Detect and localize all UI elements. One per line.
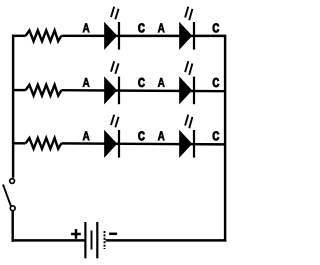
battery BT1 bbox=[71, 222, 117, 258]
label C cathode D4 bbox=[213, 78, 219, 87]
branch row 1 bbox=[12, 7, 225, 50]
label C cathode D1 bbox=[138, 23, 144, 32]
wire row3 left stub bbox=[12, 142, 26, 144]
LED D2 bbox=[180, 22, 194, 50]
wire row2 left stub bbox=[12, 89, 26, 91]
label A anode D2 bbox=[158, 23, 165, 32]
label C cathode D3 bbox=[138, 78, 144, 87]
LED D4 bbox=[180, 77, 194, 105]
label A anode D5 bbox=[83, 131, 90, 140]
battery plate positive long bbox=[84, 222, 86, 258]
wire right vertical bus bbox=[224, 35, 226, 242]
resistor R3 bbox=[26, 138, 62, 149]
LED D4 light arrows bbox=[185, 61, 192, 75]
LED D1 bbox=[105, 22, 119, 50]
label C cathode D5 bbox=[138, 131, 144, 140]
LED D3 light arrows bbox=[111, 61, 119, 74]
label C cathode D6 bbox=[213, 131, 219, 140]
branch row 2 bbox=[12, 61, 225, 104]
wire row1 main bbox=[61, 35, 225, 38]
label A anode D4 bbox=[158, 78, 165, 87]
label A anode D1 bbox=[83, 23, 90, 32]
wire below switch bbox=[11, 211, 13, 242]
battery plate long 2 bbox=[96, 222, 98, 258]
battery plate short 1 bbox=[91, 231, 93, 250]
LED D5 light arrows bbox=[111, 115, 119, 128]
resistor R2 bbox=[26, 85, 62, 96]
label C cathode D2 bbox=[213, 23, 219, 32]
label - negative terminal bbox=[109, 233, 117, 236]
label + positive terminal bbox=[71, 229, 81, 239]
wire bottom right segment bbox=[106, 239, 227, 241]
label A anode D3 bbox=[83, 78, 90, 87]
wire left vertical bus bbox=[12, 35, 14, 178]
battery plate negative short bbox=[104, 231, 106, 249]
LED D6 light arrows bbox=[185, 115, 192, 129]
LED D1 light arrows bbox=[111, 7, 119, 20]
wire row1 left stub bbox=[12, 35, 26, 37]
switch lever bbox=[3, 185, 11, 207]
resistor R1 bbox=[26, 30, 62, 41]
switch top terminal bbox=[10, 179, 15, 184]
LED D2 light arrows bbox=[185, 7, 192, 21]
switch S1 bbox=[3, 179, 15, 242]
wire row2 main bbox=[61, 90, 225, 91]
switch bottom terminal bbox=[10, 206, 15, 211]
wire bottom left segment bbox=[12, 239, 85, 241]
LED D3 bbox=[105, 77, 119, 105]
label A anode D6 bbox=[158, 131, 165, 140]
LED D6 bbox=[180, 130, 194, 158]
LED D5 bbox=[105, 130, 119, 158]
branch row 3 bbox=[12, 115, 225, 158]
wire row3 main bbox=[61, 143, 225, 144]
